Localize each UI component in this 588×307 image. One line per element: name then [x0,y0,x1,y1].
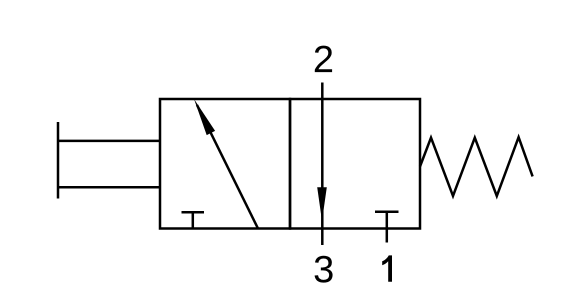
flow path 2 to 3 (right square) wire [321,99,324,229]
flow arrow head (left square) [194,99,215,135]
manual push actuator button face [57,122,60,199]
flow arrow shaft (left square) [197,105,258,229]
valve body right square (rest position) [290,99,420,229]
port 2 stub [321,83,324,100]
blocked port bar (left square) [182,211,205,214]
flow arrow head (right square, pointing down to port 3) [317,187,327,221]
label port 1 [382,255,392,281]
svg-text:2: 2 [313,39,334,81]
return spring [420,137,533,196]
port 3 stub [321,229,324,246]
manual push actuator top rail [58,140,160,143]
port 1 blocked symbol bar [375,211,399,214]
port 1 blocked symbol stem / port 1 stub [386,212,389,243]
manual push actuator bottom rail [58,186,160,189]
valve body left square (actuated position) [160,99,290,229]
svg-text:3: 3 [313,249,334,291]
blocked port stem (left square) [192,212,195,228]
